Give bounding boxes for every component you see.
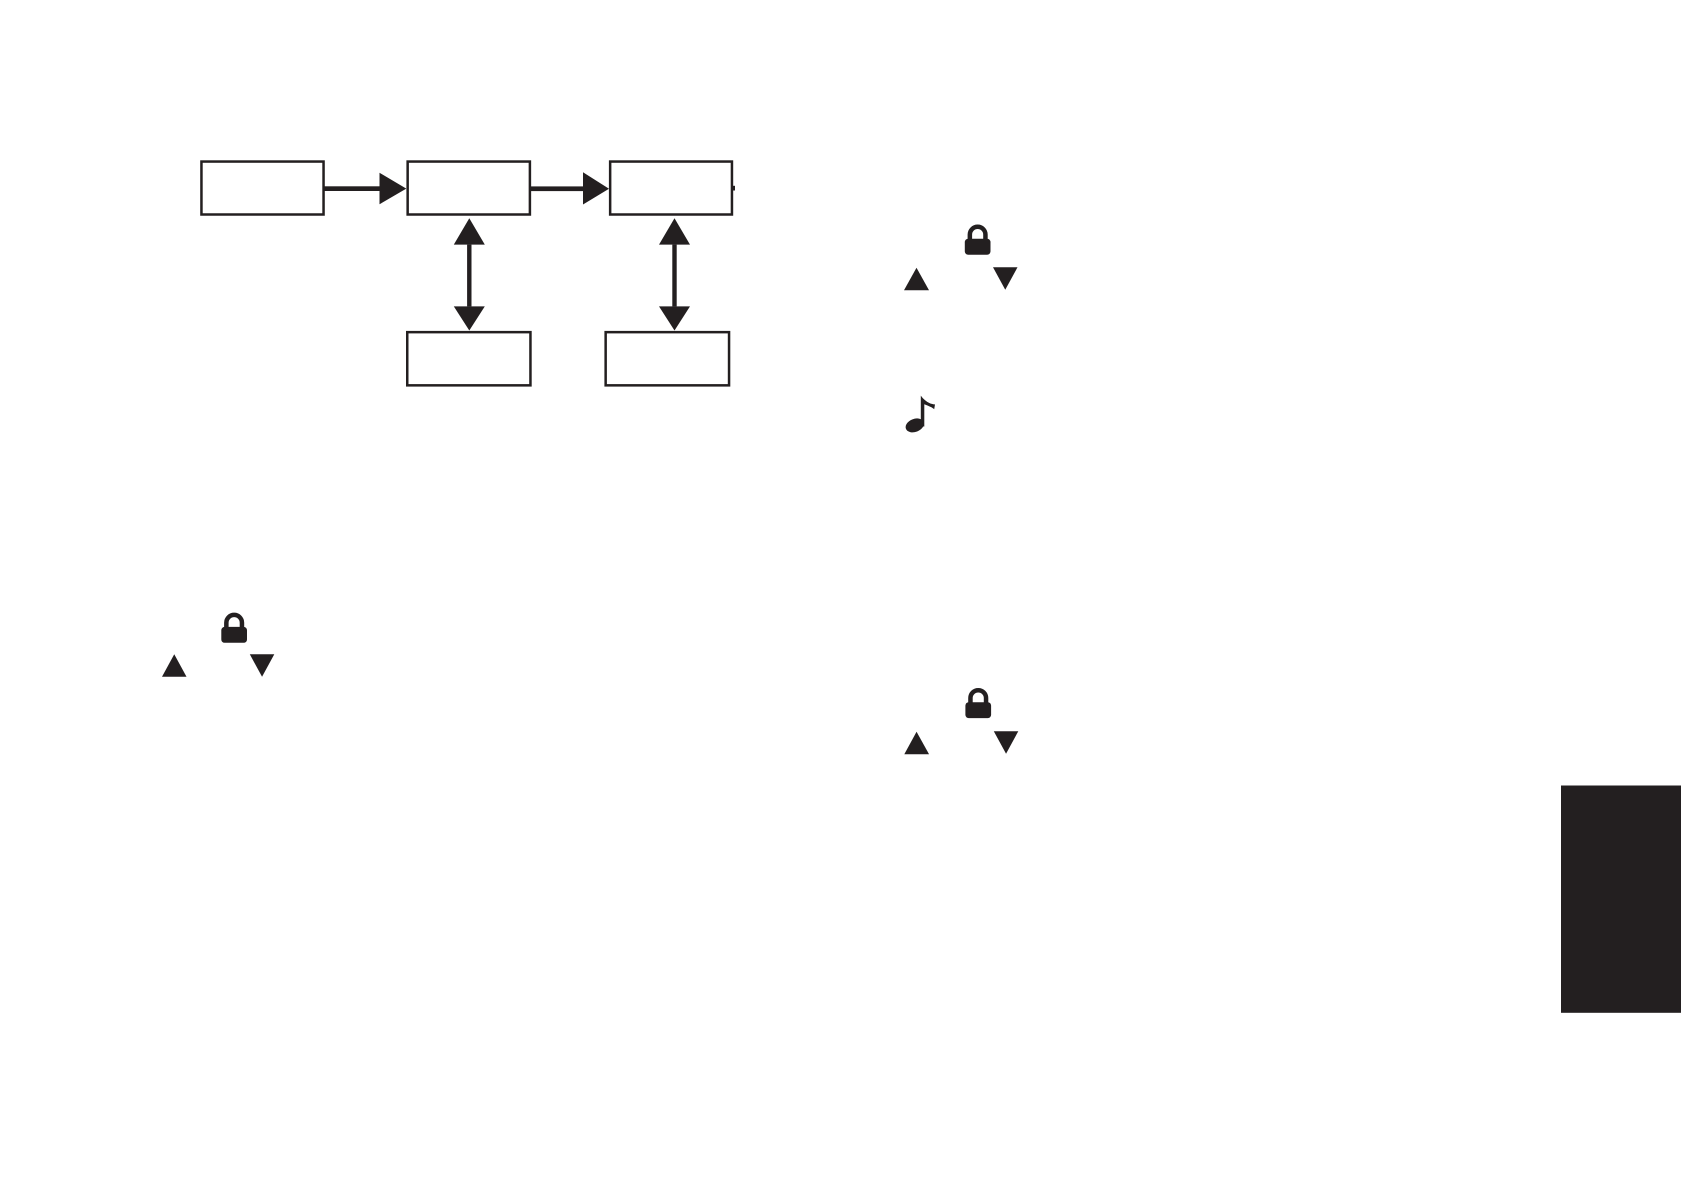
flowchart box 5 (bottom-right) (606, 332, 729, 385)
down triangle (right group 1) (993, 267, 1018, 290)
flowchart box 2 (top-middle) (408, 162, 530, 215)
tick stub right of box 3 (732, 186, 735, 191)
black page tab (right edge) (1561, 786, 1681, 1013)
music note icon (904, 396, 935, 435)
up triangle (right group 2) (904, 732, 929, 755)
vertical double arrow box2 to box4 (454, 218, 485, 330)
flowchart box 4 (bottom-middle) (407, 332, 530, 385)
lock icon (right group 2) (965, 690, 991, 718)
down triangle (left group) (250, 654, 274, 677)
down triangle (right group 2) (994, 731, 1019, 754)
right arrow box1 to box2 (325, 173, 407, 205)
up triangle (right group 1) (904, 268, 929, 291)
lock icon (right group 1) (965, 227, 991, 255)
right arrow box2 to box3 (531, 172, 609, 204)
lock icon (left group) (221, 615, 247, 643)
flowchart box 3 (top-right) (610, 162, 732, 215)
flowchart box 1 (top-left) (201, 162, 323, 215)
up triangle (left group) (162, 654, 187, 677)
vertical double arrow box3 to box5 (659, 218, 690, 330)
